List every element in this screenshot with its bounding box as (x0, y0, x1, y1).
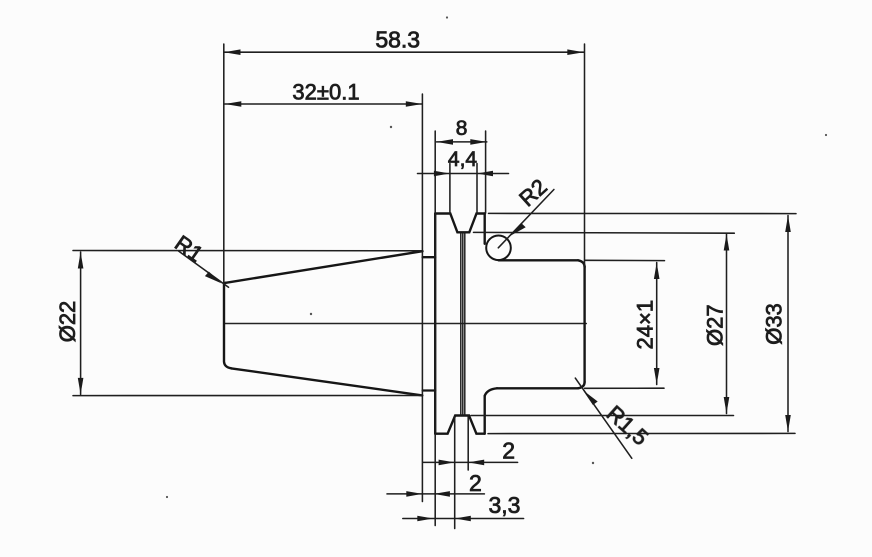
arrow 2 middle left (406, 491, 422, 497)
svg-text:58.3: 58.3 (375, 27, 420, 53)
extension line 4.4 right (476, 164, 478, 214)
arrow 24x1 bottom (654, 368, 660, 385)
extension line D (2 upper right) (467, 416, 469, 470)
svg-text:Ø27: Ø27 (703, 304, 728, 346)
arrow Ø22 bottom (78, 378, 84, 395)
dimension line Ø22 (80, 252, 82, 394)
arrow 8 right (470, 139, 487, 145)
arrow R1 leader (205, 272, 222, 284)
scan specks (166, 16, 827, 498)
extension line 8 right (485, 131, 487, 213)
dimension line 24x1 (656, 263, 658, 385)
dimension line 2 upper (423, 461, 518, 463)
dimension line 32±0.1 (225, 103, 422, 105)
dimension line Ø27 (726, 234, 728, 414)
extension line left (58.3 / 32 left, cone face) (223, 44, 225, 283)
svg-text:4,4: 4,4 (448, 148, 478, 171)
arrow Ø22 top (78, 252, 84, 269)
arrow 3,3 left (417, 516, 433, 522)
svg-text:24×1: 24×1 (633, 300, 658, 350)
arrow R1,5 leader (583, 390, 598, 405)
svg-text:3,3: 3,3 (489, 492, 521, 518)
arrow 2 upper right (468, 460, 484, 466)
arrow Ø27 top (724, 234, 730, 251)
thin extension and dimension lines (73, 44, 796, 529)
flange (pulley) outline (435, 214, 485, 434)
dimension line 58.3 (224, 51, 584, 53)
arrowheads (78, 49, 791, 521)
leader R1 (179, 251, 229, 287)
extension line A (32 right / 2 left) (421, 94, 423, 502)
dimension texts (375, 27, 420, 53)
dimension line 2 middle (387, 493, 484, 495)
dimension line 8 (437, 141, 487, 143)
stem outline (485, 260, 585, 396)
Ø22 extension bottom (73, 395, 422, 397)
svg-text:2: 2 (469, 470, 482, 496)
dimension line 3,3 (403, 518, 524, 520)
svg-text:Ø33: Ø33 (762, 303, 787, 345)
extension line right face (58.3 right) (584, 44, 586, 267)
arrow Ø27 bottom (724, 397, 730, 414)
svg-text:8: 8 (456, 117, 468, 140)
Ø22 extension top (73, 250, 423, 252)
arrow 2 middle right (434, 491, 450, 497)
R2 undercut circle (486, 236, 511, 261)
arrow 32 left (225, 101, 242, 107)
stem bottom extension (24x1) (585, 387, 664, 389)
stem top extension (24x1) (585, 259, 665, 261)
extension line 4.4 left (449, 164, 451, 214)
arrow 58.3 right (567, 49, 584, 55)
dimension line Ø33 (787, 216, 789, 432)
arrow 4,4 right (outside, pointing left) (477, 171, 493, 177)
neck between cone and flange (423, 257, 436, 390)
cone outline (224, 251, 423, 395)
arrow Ø33 bottom (785, 415, 791, 432)
dimension line 4,4 (418, 173, 509, 175)
svg-text:Ø22: Ø22 (55, 301, 80, 343)
Ø33 extension bottom (488, 432, 795, 434)
Ø27 extension top (474, 231, 735, 234)
arrow 2 upper left (439, 460, 455, 466)
arrow 4,4 left (outside, pointing right) (434, 171, 450, 177)
extension line C (2 upper left / 3.3 right) (454, 416, 456, 529)
arrow 24x1 top (654, 263, 660, 280)
arrow 32 right (406, 101, 423, 107)
Ø33 extension top (489, 212, 797, 214)
Ø27 extension bottom (471, 415, 734, 417)
svg-text:32±0.1: 32±0.1 (292, 80, 359, 105)
centerline axis (224, 323, 587, 325)
extension line flange left face down (8 left, 3.3) (434, 131, 436, 526)
arrow R2 leader (510, 223, 526, 236)
groove slit lines (461, 232, 465, 415)
leader R1,5 (575, 378, 632, 458)
arrow Ø33 top (785, 216, 791, 233)
arrow 3,3 right (455, 516, 471, 522)
arrow 58.3 left (224, 49, 241, 55)
leader R2 (498, 190, 554, 248)
svg-text:2: 2 (502, 438, 515, 464)
arrow 8 left (437, 139, 454, 145)
